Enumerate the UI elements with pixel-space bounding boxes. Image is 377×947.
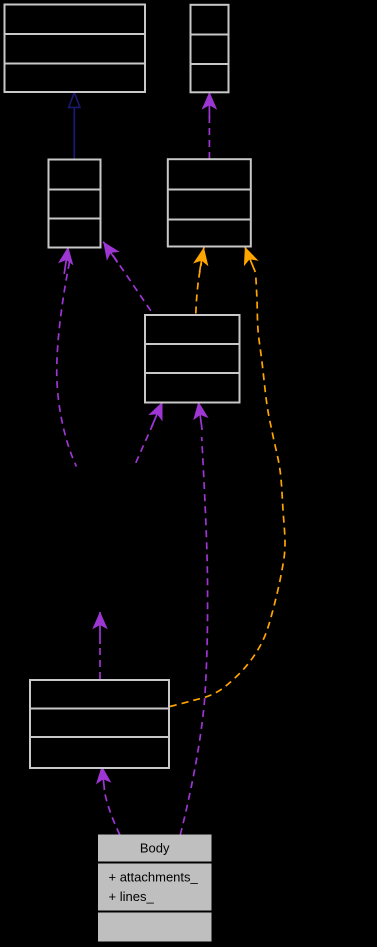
svg-text:+ lines_: + lines_ xyxy=(109,889,155,904)
svg-text:+ attachments_: + attachments_ xyxy=(109,870,199,885)
svg-text:Body: Body xyxy=(140,841,170,856)
